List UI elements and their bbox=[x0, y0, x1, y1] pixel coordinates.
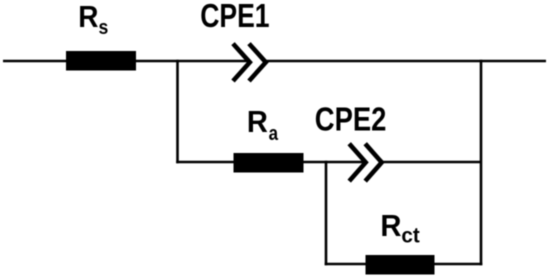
svg-text:s: s bbox=[99, 16, 109, 39]
svg-text:ct: ct bbox=[401, 223, 419, 247]
svg-text:CPE1: CPE1 bbox=[200, 0, 269, 34]
svg-text:R: R bbox=[247, 104, 268, 139]
svg-text:a: a bbox=[269, 122, 279, 145]
svg-text:R: R bbox=[78, 0, 98, 34]
svg-text:CPE2: CPE2 bbox=[315, 102, 387, 139]
svg-text:R: R bbox=[380, 208, 401, 243]
